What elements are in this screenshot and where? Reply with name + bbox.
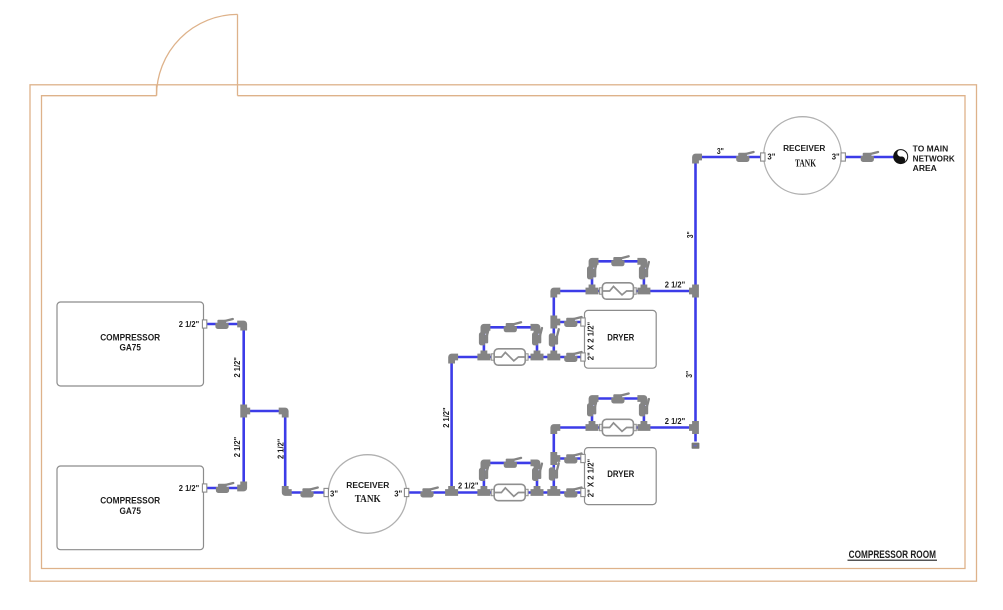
valve dryer2 upper port (564, 454, 581, 464)
pipe bypass1 left riser (483, 463, 486, 493)
dryer 1 box (585, 310, 657, 368)
elbow dryer1 outlet top (554, 291, 561, 298)
svg-text:DRYER: DRYER (607, 333, 635, 343)
elbow jog top (279, 411, 286, 418)
receiver tank 1 (328, 455, 407, 534)
svg-text:2" X 2 1/2": 2" X 2 1/2" (586, 321, 595, 360)
pipe riser to tank2 (696, 156, 764, 159)
svg-text:RECEIVER: RECEIVER (783, 143, 826, 153)
valve bypass4 top (611, 256, 628, 266)
tee dryer2 lower port (547, 486, 560, 493)
valve bypass1 right riser (532, 464, 542, 481)
pipe upper train outlet (554, 290, 696, 293)
tee dryer1 lower port (547, 351, 560, 358)
pipe compressor2 outlet (206, 487, 244, 490)
valve dryer2 lower port (564, 488, 581, 498)
svg-text:2" X 2 1/2": 2" X 2 1/2" (586, 458, 595, 497)
valve dryer1 bypass (549, 329, 559, 346)
svg-text:3": 3" (330, 488, 338, 498)
filter F2 upper train stage1 (491, 349, 528, 365)
stub tank2 inlet (761, 153, 765, 161)
tee dryer1 upper port (554, 316, 561, 329)
tee bypass3 left foot (586, 421, 599, 428)
svg-text:2 1/2": 2 1/2" (665, 416, 685, 426)
drain cap on main riser (692, 443, 700, 449)
svg-text:NETWORK: NETWORK (913, 154, 955, 163)
pipe bypass3 right riser (643, 399, 646, 428)
svg-text:2 1/2": 2 1/2" (232, 357, 242, 377)
main network connection point (894, 150, 908, 164)
svg-text:3": 3" (767, 151, 775, 161)
pipe bypass2 top (484, 326, 537, 329)
svg-text:3": 3" (685, 231, 695, 238)
valve bypass2 left riser (479, 328, 489, 345)
elbow bypass3 top-right (637, 399, 644, 406)
svg-text:3": 3" (832, 151, 840, 161)
elbow bypass1 top-left (484, 463, 491, 470)
tee bypass2 left foot (477, 351, 490, 358)
tee bypass4 right foot (637, 285, 650, 292)
pipe to tank1 (285, 491, 326, 494)
svg-text:TANK: TANK (795, 158, 817, 169)
filter F3 lower train stage2 (600, 419, 637, 435)
svg-text:2 1/2": 2 1/2" (179, 483, 199, 493)
svg-text:2 1/2": 2 1/2" (665, 280, 685, 290)
elbow bypass2 top-right (531, 327, 538, 334)
svg-text:2 1/2": 2 1/2" (232, 437, 242, 457)
pipe compressor1 outlet (206, 323, 244, 326)
pipe dryer1 bypass vertical (552, 291, 555, 357)
tee bypass2 right foot (531, 351, 544, 358)
door jamb left (156, 85, 158, 96)
stub dryer2 upper (581, 454, 585, 462)
svg-text:3": 3" (717, 146, 724, 156)
elbow dryer2 outlet top (554, 428, 561, 435)
stub tank1 outlet (404, 488, 408, 496)
stub compressor1 outlet (202, 320, 206, 328)
elbow jog bottom (285, 486, 292, 493)
stub tank1 inlet (324, 488, 328, 496)
filter F1 lower train stage1 (491, 484, 528, 500)
tee header junction (244, 405, 251, 418)
svg-text:GA75: GA75 (119, 506, 141, 516)
valve dryer2 bypass (549, 463, 559, 480)
pipe upper train main (452, 356, 585, 359)
valve compressor2 outlet (216, 483, 233, 493)
pipe bypass2 right riser (536, 327, 539, 357)
valve bypass1 left riser (479, 464, 489, 481)
dryer 2 box (585, 448, 657, 505)
pipe bypass1 right riser (536, 463, 539, 493)
svg-text:AREA: AREA (913, 164, 937, 173)
valve bypass3 left riser (587, 399, 597, 416)
svg-text:2 1/2": 2 1/2" (179, 319, 199, 329)
pipe jog vertical (284, 411, 287, 493)
pipe main riser (694, 157, 697, 442)
elbow bypass1 top-right (531, 463, 538, 470)
stub dryer1 upper (581, 318, 585, 326)
compressor 1 box (57, 302, 204, 386)
door swing arc (157, 14, 238, 95)
stub dryer1 lower (581, 353, 585, 361)
valve bypass4 left riser (587, 262, 597, 279)
svg-text:RECEIVER: RECEIVER (346, 480, 390, 490)
svg-text:2 1/2": 2 1/2" (441, 407, 451, 427)
valve bypass1 top (504, 458, 521, 468)
elbow compressor2 outlet (237, 482, 244, 489)
pipe bypass4 right riser (643, 261, 646, 291)
room inner wall with door gap (42, 96, 966, 569)
pipe tank2 to main network (841, 156, 895, 159)
elbow bypass2 top-left (484, 327, 491, 334)
valve tank1 outlet (420, 488, 437, 498)
pipe jog horizontal (244, 410, 286, 413)
tee main riser lower train (689, 421, 696, 434)
svg-text:3": 3" (394, 488, 402, 498)
elbow bypass4 top-right (637, 261, 644, 268)
svg-text:TANK: TANK (355, 494, 382, 505)
svg-text:2 1/2": 2 1/2" (458, 480, 478, 490)
elbow bypass4 top-left (592, 261, 599, 268)
pipe lower train outlet (554, 426, 696, 429)
compressor 2 box (57, 466, 204, 550)
pipe header vertical (242, 323, 245, 490)
valve tank2 inlet (736, 152, 753, 162)
valve bypass2 top (504, 322, 521, 332)
elbow compressor1 outlet (237, 324, 244, 331)
tee main riser upper train (689, 285, 696, 298)
pipe bypass4 top (592, 260, 644, 263)
svg-text:DRYER: DRYER (607, 469, 635, 479)
svg-text:COMPRESSOR: COMPRESSOR (100, 333, 161, 343)
valve tank2 outlet (861, 152, 878, 162)
valve bypass3 right riser (639, 399, 649, 416)
svg-text:COMPRESSOR ROOM: COMPRESSOR ROOM (849, 549, 936, 561)
elbow upper train riser top (452, 357, 459, 364)
pipe bypass2 left riser (483, 327, 486, 357)
filter F4 upper train stage2 (600, 283, 637, 299)
svg-text:COMPRESSOR: COMPRESSOR (100, 496, 161, 506)
door leaf (237, 14, 239, 95)
valve dryer1 upper port (564, 317, 581, 327)
valve tank1 inlet (300, 488, 317, 498)
stub tank2 outlet (841, 153, 845, 161)
tee bypass1 left foot (477, 486, 490, 493)
receiver tank 2 (764, 117, 842, 195)
tee bypass3 right foot (637, 421, 650, 428)
stub compressor2 outlet (202, 484, 206, 492)
elbow bypass3 top-left (592, 399, 599, 406)
pipe bypass4 left riser (591, 261, 594, 291)
elbow main riser top (696, 157, 703, 164)
valve dryer1 lower port (564, 352, 581, 362)
svg-text:3": 3" (684, 371, 694, 378)
tee bypass4 left foot (586, 285, 599, 292)
tee upper train branch (445, 486, 458, 493)
pipe tank1 to dryer2 lower main (405, 491, 585, 494)
pipe riser to upper train (450, 357, 453, 493)
valve bypass2 right riser (532, 328, 542, 345)
valve bypass4 right riser (639, 262, 649, 279)
pipe dryer2 upper port (554, 457, 585, 460)
pipe dryer1 upper port (554, 321, 585, 324)
pipe bypass3 top (592, 397, 644, 400)
compressor room underline (848, 559, 938, 561)
stub dryer2 lower (581, 488, 585, 496)
room outer wall (30, 85, 977, 581)
svg-text:GA75: GA75 (119, 343, 141, 353)
pipe bypass1 top (484, 462, 537, 465)
pipe dryer2 bypass vertical (552, 428, 555, 493)
tee dryer2 upper port (554, 452, 561, 465)
svg-text:2 1/2": 2 1/2" (276, 439, 286, 459)
tee bypass1 right foot (531, 486, 544, 493)
valve compressor1 outlet (215, 319, 232, 329)
svg-text:TO MAIN: TO MAIN (913, 145, 949, 154)
pipe bypass3 left riser (591, 399, 594, 428)
valve bypass3 top (611, 394, 628, 404)
